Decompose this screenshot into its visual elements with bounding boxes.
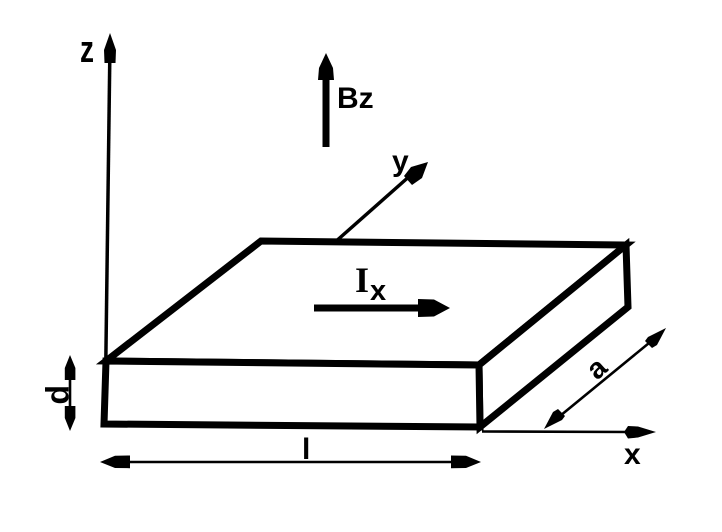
slab front face bbox=[104, 361, 480, 427]
dimension arrow a bbox=[544, 328, 666, 429]
dimension arrow d bbox=[65, 355, 76, 431]
svg-text:I: I bbox=[355, 260, 369, 300]
svg-text:x: x bbox=[624, 438, 641, 471]
dimension arrow l bbox=[100, 456, 481, 469]
slab right face bbox=[479, 245, 628, 427]
x axis bbox=[482, 426, 656, 439]
Bz field arrow bbox=[318, 53, 334, 147]
slab top face bbox=[106, 241, 626, 365]
y axis bbox=[334, 162, 428, 243]
svg-text:d: d bbox=[40, 385, 76, 405]
svg-text:x: x bbox=[370, 275, 386, 307]
current arrow Ix bbox=[314, 299, 450, 317]
z axis bbox=[104, 33, 116, 424]
svg-text:l: l bbox=[302, 433, 310, 466]
svg-text:y: y bbox=[392, 145, 409, 178]
svg-text:z: z bbox=[80, 29, 94, 71]
svg-text:Bz: Bz bbox=[337, 82, 374, 115]
